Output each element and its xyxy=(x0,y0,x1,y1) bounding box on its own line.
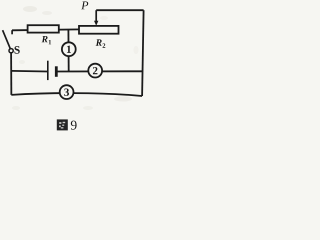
wire middle bus left segment to battery xyxy=(11,70,47,73)
resistor R1 box xyxy=(28,25,59,32)
wire top bus from switch contact to R2 xyxy=(12,28,80,31)
caption character tu (drawn square glyph) xyxy=(57,119,68,130)
meter 3 circle xyxy=(60,85,74,99)
wire middle bus right segment through meter 2 to right rail xyxy=(57,70,142,72)
switch S pivot circle xyxy=(9,49,13,53)
meter 2 circle xyxy=(88,64,102,78)
battery long plate xyxy=(47,61,49,80)
wire slider feed along top to right rail xyxy=(96,9,143,11)
caption digit 9 xyxy=(71,121,77,130)
resistor R2 rheostat box xyxy=(79,26,119,34)
slider label P xyxy=(81,1,88,9)
resistor R1 label xyxy=(42,36,52,44)
switch S fixed contact stub xyxy=(11,30,13,34)
rheostat slider arrowhead xyxy=(94,21,98,26)
wire bottom bus through meter 3 xyxy=(11,93,142,96)
meter 3 digit xyxy=(64,89,69,96)
resistor R2 label xyxy=(96,39,106,47)
wire right rail xyxy=(142,10,144,96)
battery short thick plate xyxy=(55,66,58,77)
switch S blade xyxy=(3,30,11,49)
meter 2 digit xyxy=(93,67,98,74)
meter 1 circle xyxy=(62,42,76,56)
wire left rail xyxy=(10,53,12,95)
switch label S xyxy=(15,46,20,54)
meter 1 digit xyxy=(67,46,71,53)
rheostat slider stem xyxy=(95,10,97,21)
wire branch from top bus through meter 1 to middle bus xyxy=(67,30,69,72)
